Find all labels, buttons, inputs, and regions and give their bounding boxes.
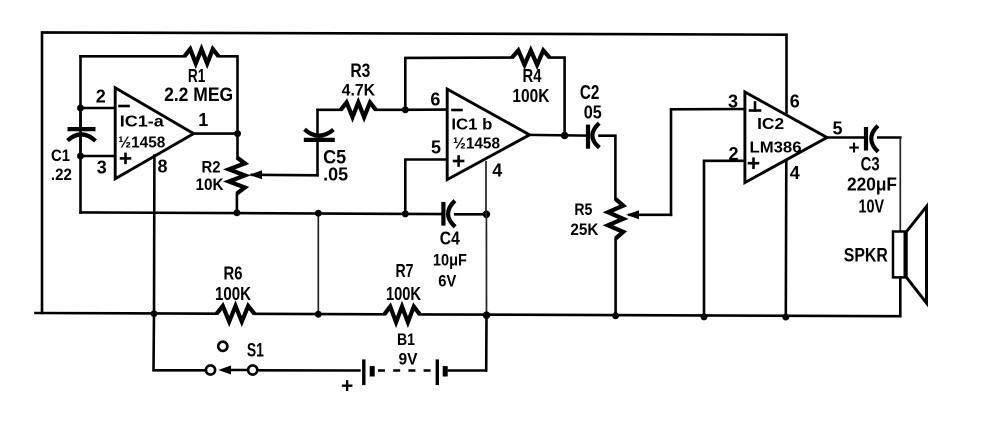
capacitor C3 <box>866 126 878 152</box>
svg-text:R3: R3 <box>350 61 370 82</box>
wire battery to riser <box>449 369 486 372</box>
wire down to switch level <box>154 314 207 371</box>
svg-text:10K: 10K <box>196 175 225 194</box>
svg-text:5: 5 <box>431 137 441 157</box>
svg-text:100K: 100K <box>215 284 251 304</box>
capacitor C2 <box>588 123 599 149</box>
svg-text:IC2: IC2 <box>757 116 784 133</box>
wire R4 loop left leg and top <box>405 58 512 110</box>
wire pin2 stub <box>81 107 116 110</box>
svg-text:220μF: 220μF <box>847 175 897 195</box>
wire R2 bottom to mid rail <box>236 194 239 213</box>
battery B1 two cells <box>364 359 445 385</box>
node U1b output R4 C2 <box>561 132 569 140</box>
svg-text:4: 4 <box>790 163 800 183</box>
wire R1 top right side and right leg down <box>219 56 238 133</box>
resistor R6 <box>217 306 255 322</box>
op-amp U1a IC1-a half 1458 <box>115 88 193 179</box>
svg-text:6V: 6V <box>438 272 457 291</box>
capacitor C5 <box>304 110 335 176</box>
node battery riser on lower rail <box>483 311 491 319</box>
node pin2 C1 top junction <box>77 105 84 112</box>
svg-text:LM386: LM386 <box>750 139 802 156</box>
svg-text:C3: C3 <box>861 154 880 175</box>
wire battery riser lower rail to battery <box>485 315 488 370</box>
node S1 branch on lower rail <box>151 310 158 317</box>
R5 wiper arrow to U2 pin3 <box>626 109 745 219</box>
svg-text:.05: .05 <box>323 165 348 185</box>
wire pin6 node to U1b <box>405 108 447 111</box>
wire R4 right corner down <box>550 58 565 136</box>
svg-text:R4: R4 <box>523 66 542 86</box>
wire S1 to battery <box>258 369 360 372</box>
svg-text:3: 3 <box>728 92 738 112</box>
wire mid rail left segment to C4 <box>81 212 442 214</box>
resistor R5 pot <box>608 199 623 239</box>
wire battery riser mid rail to lower rail (thin) <box>485 214 487 315</box>
wire lower supply rail left segment <box>36 312 217 315</box>
svg-text:2.2 MEG: 2.2 MEG <box>164 85 233 106</box>
node pin3 C1 bottom junction <box>77 153 84 160</box>
wire battery riser U1b pin4 to mid rail (thin) <box>485 161 487 214</box>
svg-text:IC1-a: IC1-a <box>120 113 164 130</box>
resistor R1 <box>185 49 219 63</box>
wire speaker bottom to lower rail <box>899 277 902 316</box>
resistor R3 <box>341 102 376 117</box>
svg-text:6: 6 <box>790 92 800 112</box>
svg-text:4.7K: 4.7K <box>342 81 376 100</box>
svg-text:100K: 100K <box>512 86 549 106</box>
wire R5 bottom to lower rail <box>614 239 617 316</box>
svg-text:IC1 b: IC1 b <box>451 117 492 134</box>
svg-text:+: + <box>341 375 353 398</box>
svg-text:R2: R2 <box>202 157 221 176</box>
resistor R4 <box>512 50 550 64</box>
node R2 bottom <box>233 209 240 216</box>
svg-text:+: + <box>848 138 859 159</box>
speaker SPKR <box>893 207 927 304</box>
capacitor C1 <box>68 108 96 156</box>
wire pin5 stub and drop <box>405 160 447 214</box>
svg-text:6: 6 <box>430 90 440 110</box>
wire R1 feedback top left side <box>81 55 185 58</box>
svg-text:8: 8 <box>157 157 167 177</box>
capacitor C4 <box>443 201 455 227</box>
svg-text:½1458: ½1458 <box>453 136 500 153</box>
svg-text:10V: 10V <box>859 197 885 217</box>
svg-text:R7: R7 <box>396 261 414 281</box>
node C4 right battery riser <box>483 211 491 219</box>
svg-text:S1: S1 <box>247 340 264 361</box>
svg-text:B1: B1 <box>397 330 415 349</box>
svg-text:R6: R6 <box>224 264 243 284</box>
svg-text:R1: R1 <box>188 66 206 86</box>
svg-text:100K: 100K <box>386 284 421 304</box>
node U2 pin2 branch <box>701 313 708 320</box>
wire top border and left border of supply loop <box>42 32 787 313</box>
svg-text:.22: .22 <box>51 165 72 184</box>
wire lower supply rail right segment <box>420 314 901 316</box>
wire pin1 output <box>194 132 238 135</box>
wire lower supply rail between R6 and R7 <box>255 312 385 315</box>
svg-text:R5: R5 <box>574 200 592 219</box>
svg-text:2: 2 <box>96 86 106 106</box>
resistor R7 <box>384 307 419 323</box>
svg-text:SPKR: SPKR <box>844 246 888 267</box>
svg-text:C4: C4 <box>440 228 460 248</box>
wire C3 right corner <box>878 136 900 139</box>
node R5 bottom <box>612 312 619 319</box>
svg-text:½1458: ½1458 <box>118 134 165 151</box>
svg-text:3: 3 <box>97 158 107 178</box>
wire node down to R2 <box>236 134 239 158</box>
R2 wiper arrow from C5 <box>249 170 318 179</box>
wire U2 pin5 output to C3 <box>827 136 865 139</box>
wire C5 top to R3 <box>318 109 341 112</box>
svg-text:C1: C1 <box>51 146 70 165</box>
svg-text:05: 05 <box>584 103 602 123</box>
wire left inner vertical C1 branch <box>79 56 82 212</box>
node pin1 junction <box>234 130 241 137</box>
wire U2 pin4 drop <box>784 161 787 318</box>
wire U2 pin2 stub and drop <box>704 161 745 317</box>
node link top <box>315 210 322 217</box>
wire U1b output to C2 <box>530 134 587 137</box>
resistor R2 pot <box>229 157 245 193</box>
wire R3 to pin6 node <box>376 109 406 112</box>
node pin5 branch on mid rail <box>402 210 409 217</box>
node U2 pin4 <box>782 314 789 321</box>
pin 8 wire down to S1 branch <box>153 156 156 314</box>
svg-text:4: 4 <box>492 161 502 181</box>
node link bottom R6 R7 junction <box>315 311 322 318</box>
wire C2 right corner down to R5 <box>600 136 616 199</box>
switch S1 <box>206 342 257 375</box>
wire corner down to speaker (thin) <box>899 138 901 232</box>
op-amp U1b IC1 b half 1458 <box>447 89 529 180</box>
wire mid rail segment C4 to battery riser node <box>455 213 486 216</box>
node R3 R4 pin6 junction <box>402 106 409 113</box>
svg-text:5: 5 <box>832 119 842 139</box>
op-amp U2 IC2 LM386 <box>745 92 827 183</box>
wire link mid rail to lower rail R6 R7 junction <box>317 213 319 314</box>
svg-text:1: 1 <box>198 110 208 130</box>
svg-text:10μF: 10μF <box>433 251 467 270</box>
svg-text:9V: 9V <box>399 350 419 369</box>
svg-text:25K: 25K <box>570 220 599 239</box>
svg-text:C2: C2 <box>580 82 600 104</box>
wire pin3 stub <box>81 155 116 158</box>
